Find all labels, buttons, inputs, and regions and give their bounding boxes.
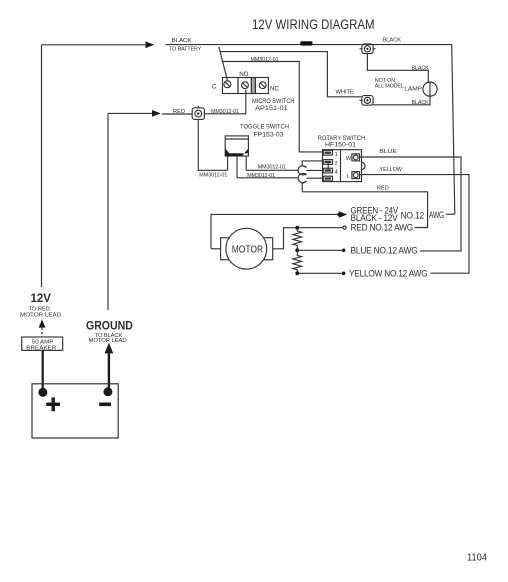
svg-text:W: W	[346, 156, 352, 162]
lamp connector top	[360, 44, 376, 54]
screw NC	[259, 82, 266, 89]
battery BT1	[32, 384, 118, 438]
svg-text:NO: NO	[239, 71, 248, 78]
wire blue	[360, 157, 462, 251]
wire node to red awg	[299, 227, 343, 229]
svg-text:1104: 1104	[467, 553, 487, 564]
svg-text:MOTOR LEAD: MOTOR LEAD	[89, 338, 127, 344]
dot blue awg	[342, 249, 346, 253]
node resistor mid	[295, 248, 299, 252]
svg-text:AWG: AWG	[429, 210, 444, 220]
motor M1	[221, 228, 273, 269]
svg-text:MM3012-01: MM3012-01	[247, 173, 275, 179]
rotary terminal 4	[323, 168, 332, 173]
svg-text:MOTOR LEAD: MOTOR LEAD	[20, 312, 61, 318]
wire ground vertical	[107, 113, 109, 310]
screw C	[224, 81, 231, 88]
svg-text:WHITE: WHITE	[336, 89, 354, 95]
arrow red	[152, 110, 161, 117]
wire red to connector	[162, 113, 192, 115]
svg-text:2: 2	[335, 161, 338, 167]
arrow ground up	[105, 343, 114, 354]
svg-text:ALL MODEL: ALL MODEL	[375, 84, 404, 90]
rotary L terminal	[352, 172, 360, 179]
breaker CB1	[22, 337, 63, 352]
arrow green black feed	[339, 211, 347, 218]
jumper bar terminals 2-4	[326, 162, 330, 171]
connector red MM3012-01	[192, 106, 204, 122]
svg-text:C: C	[212, 83, 217, 90]
svg-text:MM3012-01: MM3012-01	[258, 165, 286, 171]
battery minus symbol	[99, 402, 111, 406]
resistor R1	[293, 230, 302, 249]
wire lamp top feed	[367, 54, 428, 82]
svg-text:L: L	[347, 174, 351, 180]
dot yellow awg	[342, 272, 346, 276]
svg-text:BLACK: BLACK	[412, 66, 430, 72]
wire breaker to battery	[42, 350, 44, 389]
svg-text:TO BATTERY: TO BATTERY	[169, 47, 202, 53]
wire toggle left feed	[198, 122, 227, 171]
wire lamp bottom	[373, 96, 430, 105]
svg-text:NC: NC	[270, 85, 279, 92]
toggle pin right	[245, 156, 247, 170]
toggle switch S1	[225, 136, 248, 156]
screw NO	[242, 82, 249, 89]
wire red connector to NO terminal	[205, 90, 246, 114]
wire white upper	[221, 52, 362, 97]
svg-text:HF150-01: HF150-01	[325, 142, 356, 149]
plug connector upper	[298, 161, 323, 175]
wire toggle right to plug	[246, 169, 297, 171]
plug connector lower	[298, 174, 323, 192]
svg-text:BLUE: BLUE	[379, 149, 397, 155]
svg-text:RED NO.12 AWG: RED NO.12 AWG	[351, 222, 414, 232]
svg-text:1: 1	[335, 152, 338, 158]
lamp	[423, 82, 437, 96]
wire toggle center to plug	[237, 177, 298, 179]
node resistor top	[295, 226, 299, 230]
wire black to battery horizontal	[42, 44, 147, 46]
wire node to yellow awg	[299, 272, 342, 274]
svg-text:MM3012-01: MM3012-01	[251, 57, 279, 63]
wire black to AWG stub	[446, 213, 455, 215]
battery negative terminal dot	[103, 387, 112, 396]
wire node to blue awg	[299, 249, 342, 251]
rotary terminal 1	[323, 150, 332, 155]
splice block on black wire	[300, 41, 312, 45]
svg-text:BLUE NO.12 AWG: BLUE NO.12 AWG	[351, 246, 418, 256]
wire black main top	[166, 44, 453, 46]
svg-text:YELLOW: YELLOW	[380, 167, 403, 173]
wire motor left stub	[211, 248, 221, 250]
terminal circle red awg	[343, 226, 346, 229]
svg-text:MM3012-01: MM3012-01	[199, 172, 227, 178]
svg-text:MOTOR: MOTOR	[232, 244, 264, 255]
svg-text:YELLOW NO.12 AWG: YELLOW NO.12 AWG	[349, 269, 428, 279]
rotary W terminal	[352, 154, 360, 161]
svg-text:4: 4	[335, 170, 339, 176]
lamp connector bottom	[360, 96, 374, 106]
svg-text:NO.12: NO.12	[401, 210, 425, 220]
wire ground to battery	[108, 353, 110, 389]
svg-text:LAMP: LAMP	[404, 87, 422, 93]
svg-text:BLACK: BLACK	[383, 37, 402, 43]
rotary switch body	[323, 150, 366, 182]
arrow black to battery	[146, 41, 155, 48]
micro switch U1 body	[223, 78, 269, 94]
node resistor bottom	[295, 271, 299, 275]
resistor R2	[293, 252, 302, 271]
svg-text:RED: RED	[377, 185, 389, 191]
wire motor top	[211, 214, 340, 248]
wire battery positive vertical	[41, 45, 43, 287]
svg-text:BREAKER: BREAKER	[26, 346, 56, 352]
svg-text:GROUND: GROUND	[86, 319, 133, 333]
wire MM3012-01 to rotary 1	[222, 62, 323, 152]
svg-text:BLACK: BLACK	[172, 38, 192, 44]
wire red horizontal	[108, 112, 153, 114]
arrow breaker dashed	[39, 319, 46, 327]
svg-text:TOGGLE SWITCH: TOGGLE SWITCH	[240, 124, 289, 131]
svg-text:12V WIRING DIAGRAM: 12V WIRING DIAGRAM	[252, 17, 375, 32]
svg-text:AP151-01: AP151-01	[255, 105, 288, 112]
wire black right vertical	[452, 45, 455, 215]
rotary terminal 2	[323, 160, 332, 165]
svg-text:12V: 12V	[31, 291, 52, 305]
svg-text:FP153-03: FP153-03	[254, 131, 284, 138]
rotary terminal bottom	[323, 176, 332, 181]
toggle pin left	[227, 156, 229, 170]
svg-text:BLACK: BLACK	[412, 100, 430, 106]
wire motor right to resistor top	[273, 228, 296, 249]
wire red rotary	[302, 192, 427, 228]
battery plus symbol	[46, 397, 60, 411]
wire yellow	[360, 175, 470, 274]
wire micro switch C diagonal	[219, 47, 228, 80]
toggle pin center	[236, 156, 238, 178]
battery positive terminal dot	[38, 388, 47, 397]
